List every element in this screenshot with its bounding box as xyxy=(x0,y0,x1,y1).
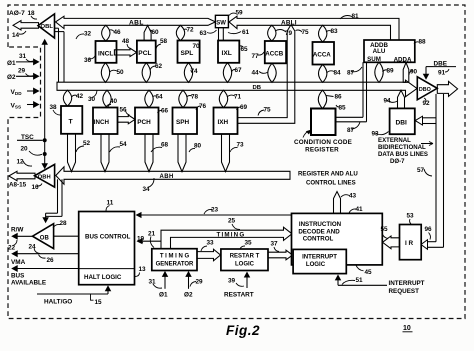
svg-text:43: 43 xyxy=(349,192,357,199)
svg-text:85: 85 xyxy=(339,105,347,112)
svg-text:RESTART: RESTART xyxy=(224,292,254,299)
svg-text:Ø2: Ø2 xyxy=(7,74,16,81)
svg-text:65: 65 xyxy=(241,46,249,53)
wire SUM to CCR pair xyxy=(362,62,364,117)
bus tap ACCB-DB xyxy=(268,63,276,82)
svg-text:57: 57 xyxy=(417,167,425,174)
wire OBH to OB xyxy=(57,179,59,213)
svg-text:21: 21 xyxy=(148,230,156,237)
bus arrow RESTART to INTERRUPT xyxy=(268,250,293,260)
output buffer DBO xyxy=(417,77,437,100)
bus tap ABLI-ACCB xyxy=(268,25,276,41)
svg-text:ABLI: ABLI xyxy=(281,20,297,27)
svg-text:11: 11 xyxy=(107,199,114,206)
wire OB to BUS CONTROL xyxy=(54,235,79,237)
bus TIMING xyxy=(161,227,292,249)
svg-text:SPL: SPL xyxy=(181,50,194,57)
bus connector INCH-ABH xyxy=(101,134,109,172)
svg-text:16: 16 xyxy=(32,184,40,191)
svg-text:OB: OB xyxy=(40,235,50,241)
svg-text:VMA: VMA xyxy=(11,259,26,266)
svg-text:T I M I N G: T I M I N G xyxy=(160,253,190,259)
svg-text:20: 20 xyxy=(21,146,29,153)
svg-text:79: 79 xyxy=(285,30,293,37)
output buffer OB xyxy=(33,224,54,249)
bus tap DB-PCH xyxy=(145,90,153,107)
svg-text:I R: I R xyxy=(405,240,414,247)
wire external bus vertical 1 xyxy=(435,94,437,242)
svg-text:28: 28 xyxy=(60,220,68,227)
wire TSC control line xyxy=(44,41,46,166)
svg-text:63: 63 xyxy=(200,30,208,37)
block INCL xyxy=(96,41,117,63)
block SPL xyxy=(178,41,200,63)
svg-text:PCH: PCH xyxy=(137,119,151,126)
svg-text:83: 83 xyxy=(331,28,339,35)
bus ABH xyxy=(56,167,290,184)
svg-text:TIMING: TIMING xyxy=(217,232,246,239)
bus arrow INCL to PCL xyxy=(114,48,136,56)
bus tap INCL-DB xyxy=(101,63,109,83)
svg-text:INCL: INCL xyxy=(98,50,113,57)
svg-text:87: 87 xyxy=(347,127,355,134)
block INCH xyxy=(93,108,118,135)
svg-text:13: 13 xyxy=(139,266,147,273)
svg-text:31: 31 xyxy=(149,278,157,285)
svg-text:ADDA: ADDA xyxy=(394,57,412,64)
external data bus arrow xyxy=(437,81,457,96)
node TSC junction 1 xyxy=(43,138,47,142)
block DBI xyxy=(390,108,415,134)
svg-text:PCL: PCL xyxy=(138,50,151,57)
svg-text:15: 15 xyxy=(95,299,103,306)
block ACCA xyxy=(313,42,335,65)
bus connector ABLI to IXH xyxy=(233,25,295,124)
svg-text:AVAILABLE: AVAILABLE xyxy=(11,280,46,287)
svg-text:73: 73 xyxy=(237,141,245,148)
svg-text:50: 50 xyxy=(117,69,125,76)
bus DB xyxy=(57,80,417,97)
svg-text:IXH: IXH xyxy=(218,119,229,126)
svg-text:10: 10 xyxy=(403,325,411,332)
svg-text:LOGIC: LOGIC xyxy=(306,261,326,268)
svg-text:Ø1: Ø1 xyxy=(159,292,168,299)
svg-text:39: 39 xyxy=(228,277,236,284)
svg-text:DØ-7: DØ-7 xyxy=(390,158,405,165)
svg-text:R/W: R/W xyxy=(11,226,24,233)
switch SW xyxy=(215,15,228,27)
bus connector T-ABH xyxy=(68,134,76,172)
svg-text:RESTAR T: RESTAR T xyxy=(230,254,260,260)
block ACCB xyxy=(265,41,286,63)
block IR xyxy=(400,225,422,260)
svg-text:A8-15: A8-15 xyxy=(9,181,27,188)
svg-text:SPH: SPH xyxy=(176,119,190,126)
wire control line 23 xyxy=(141,214,292,216)
svg-text:62: 62 xyxy=(155,63,163,70)
bus tap ABL-INCL xyxy=(102,25,110,41)
svg-text:32: 32 xyxy=(84,31,92,38)
svg-text:OBL: OBL xyxy=(41,24,54,30)
bus ABLI xyxy=(229,16,399,40)
block SPH xyxy=(173,108,198,135)
svg-text:94: 94 xyxy=(384,98,392,105)
svg-text:88: 88 xyxy=(419,39,427,46)
wire TSC input xyxy=(17,139,43,141)
svg-text:80: 80 xyxy=(194,142,202,149)
svg-text:55: 55 xyxy=(381,226,389,233)
svg-text:87: 87 xyxy=(347,69,355,76)
svg-text:DECODE AND: DECODE AND xyxy=(298,228,340,235)
svg-text:INSTRUCTION: INSTRUCTION xyxy=(299,221,342,228)
svg-text:64: 64 xyxy=(156,94,164,101)
bus tap SPL-DB xyxy=(184,63,192,83)
svg-text:59: 59 xyxy=(236,10,244,17)
wire external bus into DBI xyxy=(422,117,436,119)
svg-text:35: 35 xyxy=(245,240,253,247)
svg-text:LOGIC: LOGIC xyxy=(235,262,255,268)
svg-text:ABH: ABH xyxy=(160,174,174,180)
svg-text:90: 90 xyxy=(410,69,418,76)
svg-text:91: 91 xyxy=(438,69,446,76)
svg-text:72: 72 xyxy=(187,27,195,34)
svg-text:30: 30 xyxy=(88,96,96,103)
svg-text:96: 96 xyxy=(425,226,433,233)
svg-text:INTERRUPT: INTERRUPT xyxy=(302,253,337,260)
svg-text:24: 24 xyxy=(29,243,37,250)
bus tap DB-IXH xyxy=(219,90,227,107)
bus arrow TG to RESTART xyxy=(197,249,221,261)
node TSC junction 2 xyxy=(43,152,47,156)
svg-text:SW: SW xyxy=(216,20,226,26)
svg-text:68: 68 xyxy=(161,141,169,148)
block condition code register xyxy=(311,109,336,136)
wire timing to bus control 19 xyxy=(142,240,161,242)
svg-text:HALT LOGIC: HALT LOGIC xyxy=(84,274,122,281)
svg-text:Ø2: Ø2 xyxy=(184,292,193,299)
svg-text:25: 25 xyxy=(228,218,236,225)
svg-text:81: 81 xyxy=(352,13,360,20)
bus ABL xyxy=(56,16,216,28)
svg-text:52: 52 xyxy=(83,140,91,147)
bus tap SUM-DB xyxy=(375,62,383,82)
bus tap DB-CCR xyxy=(318,90,326,108)
svg-text:33: 33 xyxy=(207,240,215,247)
wire external bus vertical 2 xyxy=(443,94,445,247)
svg-text:BUS CONTROL: BUS CONTROL xyxy=(85,234,131,241)
svg-text:78: 78 xyxy=(191,94,199,101)
wire external bus into IR xyxy=(427,241,436,243)
bus connector DBI-DB up arrow xyxy=(398,90,405,108)
svg-text:44: 44 xyxy=(252,69,260,76)
svg-text:61: 61 xyxy=(242,29,250,36)
svg-text:29: 29 xyxy=(18,68,26,75)
bus connector IXH-ABH xyxy=(222,134,230,172)
svg-text:AØ-7: AØ-7 xyxy=(9,10,25,17)
wire OBL to DB pair xyxy=(55,27,59,29)
bus tap IXL-DB xyxy=(223,63,231,83)
block RESTART LOGIC xyxy=(221,249,268,271)
svg-text:Fig.2: Fig.2 xyxy=(226,323,260,338)
address out arrow A0-7 xyxy=(13,21,39,30)
svg-text:51: 51 xyxy=(356,277,364,284)
bus connector control lines up xyxy=(334,192,341,214)
svg-text:Ø1: Ø1 xyxy=(7,60,16,67)
svg-text:60: 60 xyxy=(152,29,160,36)
svg-text:69: 69 xyxy=(240,104,248,111)
block INSTRUCTION DECODE AND CONTROL xyxy=(292,213,383,265)
svg-text:CONTROL: CONTROL xyxy=(303,236,334,243)
wire SW to IXL xyxy=(218,28,220,41)
svg-text:REQUEST: REQUEST xyxy=(389,288,420,295)
svg-text:INCH: INCH xyxy=(94,119,110,126)
block PCL xyxy=(137,41,156,63)
svg-text:84: 84 xyxy=(334,69,342,76)
svg-text:BIDIRECTIONAL: BIDIRECTIONAL xyxy=(378,144,426,151)
block BUS CONTROL / HALT LOGIC xyxy=(79,212,135,285)
svg-text:ACCA: ACCA xyxy=(313,52,331,59)
svg-text:CONDITION CODE: CONDITION CODE xyxy=(294,139,352,146)
svg-text:38: 38 xyxy=(50,104,58,111)
svg-text:86: 86 xyxy=(335,94,343,101)
svg-text:HALT/GO: HALT/GO xyxy=(44,298,72,305)
bus connector PCL-ABL up arrow xyxy=(144,25,151,40)
svg-text:46: 46 xyxy=(114,29,122,36)
svg-text:DB: DB xyxy=(253,85,262,91)
block PCH xyxy=(135,108,159,135)
block ADDB ALU xyxy=(364,40,415,62)
svg-text:OBH: OBH xyxy=(38,175,51,181)
svg-text:37: 37 xyxy=(271,241,279,248)
bus connector PCH-ABH xyxy=(145,134,153,172)
svg-text:76: 76 xyxy=(199,103,207,110)
bus connector SPH-ABH xyxy=(178,134,186,172)
svg-text:31: 31 xyxy=(19,53,27,60)
svg-text:IXL: IXL xyxy=(222,50,232,57)
svg-text:REGISTER: REGISTER xyxy=(305,146,339,153)
svg-text:75: 75 xyxy=(302,29,310,36)
svg-text:23: 23 xyxy=(211,206,219,213)
svg-text:TSC: TSC xyxy=(21,134,34,141)
svg-text:EXTERNAL: EXTERNAL xyxy=(378,137,411,144)
block TIMING GENERATOR xyxy=(152,249,197,271)
svg-text:ABL: ABL xyxy=(129,20,144,27)
bus arrow IR to IDC xyxy=(383,236,400,249)
svg-text:DATA BUS LINES: DATA BUS LINES xyxy=(378,151,428,158)
svg-text:ACCB: ACCB xyxy=(265,51,283,58)
svg-text:DBI: DBI xyxy=(396,119,408,126)
bus tap PCL-DB xyxy=(142,63,150,83)
bus tap ACCA-DB xyxy=(319,65,327,83)
svg-text:75: 75 xyxy=(264,107,272,114)
svg-text:89: 89 xyxy=(387,68,395,75)
svg-text:77: 77 xyxy=(252,53,260,60)
svg-text:42: 42 xyxy=(76,93,84,100)
svg-text:36: 36 xyxy=(84,57,92,64)
svg-text:66: 66 xyxy=(161,107,169,114)
bus tap DB-SPH xyxy=(179,90,187,107)
bus arrow INCH to PCH xyxy=(118,115,136,124)
output buffer OBH xyxy=(35,164,55,187)
bus tap DB-T xyxy=(63,90,71,106)
svg-text:GENERATOR: GENERATOR xyxy=(156,262,194,268)
svg-text:71: 71 xyxy=(234,94,242,101)
bus connector ADDA-DB xyxy=(403,63,409,83)
svg-text:CONTROL LINES: CONTROL LINES xyxy=(306,179,356,186)
svg-text:14: 14 xyxy=(12,32,20,39)
block IXH xyxy=(214,108,238,135)
svg-text:DBO: DBO xyxy=(419,87,431,93)
svg-text:48: 48 xyxy=(122,38,130,45)
svg-text:67: 67 xyxy=(235,67,243,74)
bus tap DB-INCH xyxy=(103,90,111,107)
bus tap ABLI-ACCA xyxy=(319,25,327,42)
block INTERRUPT LOGIC xyxy=(293,249,346,273)
svg-text:29: 29 xyxy=(196,278,204,285)
svg-text:INTERRUPT: INTERRUPT xyxy=(389,280,425,287)
bus tap ABL-SPL xyxy=(176,25,184,40)
svg-text:70: 70 xyxy=(193,43,201,50)
svg-text:ALU: ALU xyxy=(373,48,386,55)
svg-text:54: 54 xyxy=(120,141,128,148)
svg-text:REGISTER AND ALU: REGISTER AND ALU xyxy=(298,170,358,177)
block T xyxy=(61,106,82,134)
output buffer OBL xyxy=(38,14,55,38)
svg-text:26: 26 xyxy=(47,257,55,264)
svg-text:58: 58 xyxy=(160,38,168,45)
block IXL xyxy=(218,41,239,63)
svg-text:53: 53 xyxy=(407,213,415,220)
address out arrow A8-15 xyxy=(9,171,35,180)
svg-text:45: 45 xyxy=(365,269,373,276)
svg-text:41: 41 xyxy=(356,206,364,213)
